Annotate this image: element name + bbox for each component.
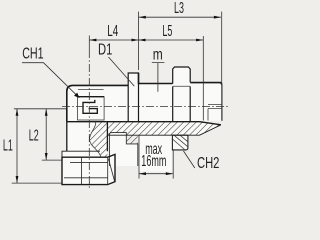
svg-text:CH2: CH2 [197, 153, 219, 172]
svg-text:L1: L1 [3, 135, 13, 154]
svg-text:L2: L2 [29, 125, 39, 144]
svg-text:L3: L3 [174, 0, 184, 17]
svg-text:L5: L5 [162, 21, 172, 40]
svg-text:D1: D1 [98, 40, 112, 59]
svg-text:m: m [153, 45, 163, 63]
svg-text:16mm: 16mm [141, 151, 166, 169]
svg-text:L4: L4 [107, 21, 118, 39]
svg-text:CH1: CH1 [22, 45, 43, 63]
